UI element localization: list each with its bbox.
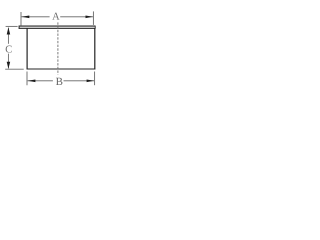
label A — [52, 13, 59, 20]
dimension A left extension line — [20, 12, 22, 25]
label C — [6, 46, 12, 53]
dimension A line right segment — [60, 16, 93, 18]
label B — [56, 78, 62, 85]
dimension C bottom extension line — [5, 68, 24, 70]
dimension C line upper segment — [7, 28, 9, 44]
flange left edge cap — [18, 26, 20, 29]
body right wall — [94, 28, 96, 69]
dimension C line lower segment — [7, 54, 9, 69]
dimension C down arrowhead — [7, 62, 11, 69]
dimension B right extension line — [94, 72, 96, 86]
dimension B line left segment — [28, 80, 53, 82]
dimension A right arrowhead — [86, 16, 94, 19]
flange top line — [19, 25, 96, 27]
dimension C top extension line — [6, 25, 18, 27]
dimension B right arrowhead — [87, 80, 95, 83]
dimension B left arrowhead — [28, 80, 36, 83]
dimension A left arrowhead — [21, 16, 29, 19]
vertical centerline dash-dot — [57, 22, 59, 74]
dimension A line left segment — [22, 16, 50, 18]
dimension A right extension line — [92, 11, 94, 25]
dimension B left extension line — [26, 72, 28, 86]
body left wall — [26, 28, 28, 69]
dimension C up arrowhead — [7, 27, 11, 34]
flange right edge cap — [94, 26, 96, 29]
body bottom line — [27, 68, 95, 70]
flange lip bottom line — [19, 27, 96, 29]
dimension B line right segment — [64, 80, 95, 82]
